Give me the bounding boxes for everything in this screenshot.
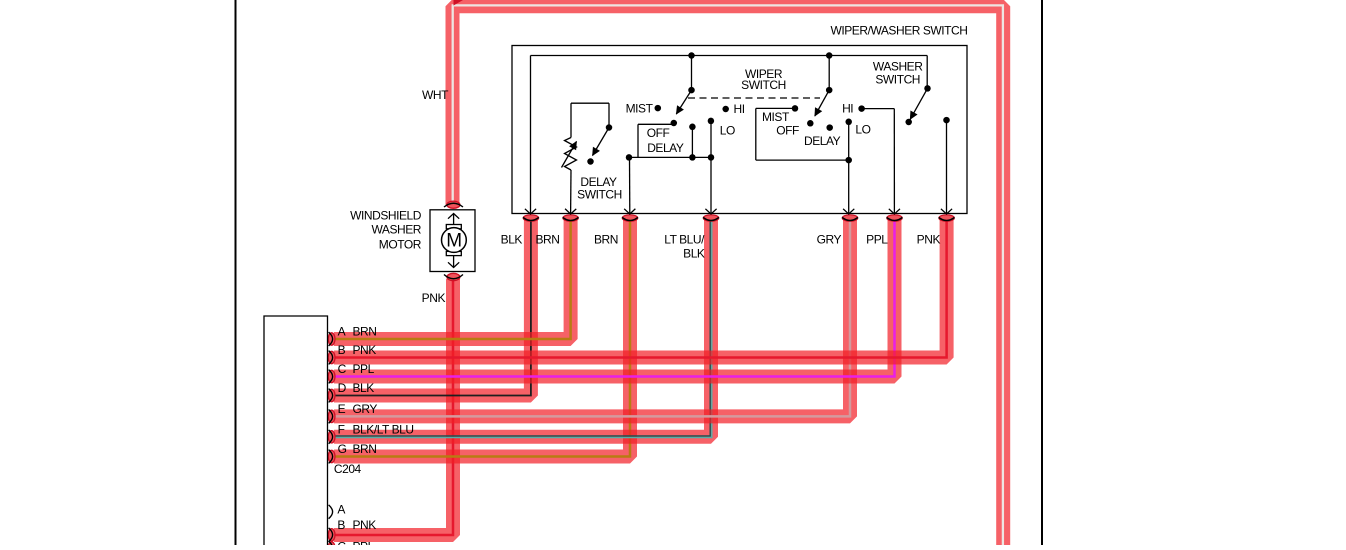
svg-text:BLK: BLK	[353, 381, 375, 395]
svg-text:SWITCH: SWITCH	[577, 187, 622, 201]
svg-text:OFF: OFF	[776, 123, 799, 137]
svg-text:BRN: BRN	[353, 442, 377, 456]
svg-text:BLK/LT BLU: BLK/LT BLU	[353, 422, 414, 436]
svg-text:WASHER: WASHER	[371, 223, 421, 237]
svg-text:PNK: PNK	[353, 518, 377, 532]
svg-text:E: E	[338, 402, 346, 416]
svg-text:MOTOR: MOTOR	[379, 238, 422, 252]
svg-text:WIPER/WASHER SWITCH: WIPER/WASHER SWITCH	[830, 24, 967, 38]
svg-text:A: A	[338, 325, 346, 339]
svg-text:G: G	[338, 442, 347, 456]
svg-text:WINDSHIELD: WINDSHIELD	[350, 209, 422, 223]
svg-text:C: C	[337, 540, 346, 546]
svg-text:BRN: BRN	[536, 232, 560, 246]
svg-text:HI: HI	[734, 102, 745, 116]
svg-text:GRY: GRY	[817, 232, 842, 246]
svg-text:M: M	[446, 231, 461, 252]
svg-text:PPL: PPL	[353, 540, 375, 546]
svg-text:B: B	[337, 518, 345, 532]
svg-text:BLK: BLK	[683, 247, 705, 261]
svg-text:BLK: BLK	[501, 232, 523, 246]
svg-text:SWITCH: SWITCH	[741, 78, 786, 92]
svg-text:B: B	[338, 343, 346, 357]
svg-text:PNK: PNK	[917, 232, 941, 246]
svg-text:OFF: OFF	[647, 126, 670, 140]
svg-text:PPL: PPL	[353, 362, 375, 376]
svg-text:MIST: MIST	[762, 110, 790, 124]
svg-text:C: C	[338, 362, 347, 376]
svg-text:WASHER: WASHER	[873, 60, 923, 74]
svg-text:LO: LO	[720, 124, 735, 138]
svg-text:A: A	[337, 502, 345, 516]
svg-text:PNK: PNK	[422, 291, 446, 305]
svg-text:BRN: BRN	[594, 232, 618, 246]
svg-text:LT BLU/: LT BLU/	[664, 232, 705, 246]
svg-text:DELAY: DELAY	[647, 141, 684, 155]
svg-text:F: F	[338, 422, 345, 436]
svg-text:DELAY: DELAY	[804, 134, 841, 148]
svg-text:HI: HI	[842, 102, 853, 116]
svg-text:D: D	[338, 381, 347, 395]
svg-text:MIST: MIST	[626, 102, 654, 116]
svg-text:SWITCH: SWITCH	[875, 73, 920, 87]
svg-text:PPL: PPL	[866, 232, 888, 246]
svg-text:PNK: PNK	[353, 343, 377, 357]
svg-text:GRY: GRY	[353, 402, 378, 416]
svg-text:WHT: WHT	[422, 88, 449, 102]
svg-text:BRN: BRN	[353, 325, 377, 339]
svg-text:C204: C204	[334, 462, 362, 476]
svg-text:LO: LO	[855, 122, 870, 136]
